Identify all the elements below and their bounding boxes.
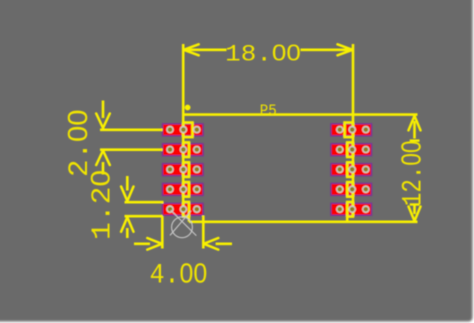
bump box R3: [347, 162, 353, 177]
bump box L5: [183, 202, 189, 217]
holes L1: [166, 126, 200, 134]
dim 12.00 top arrow (up): [413, 121, 416, 139]
silkscreen top edge / 12.00 top extension: [183, 113, 417, 116]
svg-text:P5: P5: [260, 102, 277, 120]
pad row L2: [163, 144, 204, 156]
bump box R4: [347, 182, 353, 197]
pin1 bump box L1: [183, 123, 192, 138]
svg-text:2.00: 2.00: [62, 110, 96, 178]
staircase right down-leg: [346, 216, 349, 222]
dim 1.20 lower arrow (up): [126, 228, 129, 238]
svg-text:4.00: 4.00: [150, 258, 208, 292]
dim 2.00 extension row2: [100, 148, 163, 151]
holes L4: [166, 186, 200, 194]
bump box L3: [183, 162, 189, 177]
staircase left down-leg: [188, 216, 191, 222]
holes R3: [336, 166, 370, 174]
pad row R4: [331, 183, 372, 195]
pad row L4: [163, 183, 204, 195]
dim 2.00 lower arrow (up): [102, 162, 105, 175]
pad row R3: [331, 164, 372, 176]
holes R2: [336, 146, 370, 154]
pad row R5: [331, 203, 372, 215]
pad row L3: [163, 164, 204, 176]
pad row L1: [163, 124, 204, 136]
dim 4.00 left arrow (right-pointing): [134, 243, 150, 246]
bump box L4: [183, 182, 189, 197]
dim 4.00 extension left vertical: [161, 216, 164, 248]
svg-text:18.00: 18.00: [225, 40, 301, 68]
pin1 reference dot: [185, 105, 191, 111]
dim 18.00 right arrowhead: [338, 44, 353, 50]
origin marker: [170, 210, 196, 237]
dim 4.00 extension right vertical: [202, 216, 205, 249]
holes R4: [336, 186, 370, 194]
holes R1: [336, 126, 370, 134]
bump box R2: [347, 142, 353, 157]
silkscreen right vertical outline: [352, 44, 355, 217]
holes L3: [166, 166, 200, 174]
dim 4.00 right arrow (left-pointing): [216, 243, 232, 246]
holes L2: [166, 146, 200, 154]
dim 18.00 line left segment: [183, 48, 226, 51]
bump box R5: [347, 202, 353, 217]
svg-text:12.00: 12.00: [396, 141, 430, 207]
bump box L2: [183, 142, 189, 157]
dim 12.00 bottom arrow (down): [413, 206, 416, 215]
pad row L5: [163, 203, 204, 215]
dim 1.20 extension top: [125, 201, 164, 204]
dim 18.00 left arrowhead: [184, 44, 199, 50]
svg-text:1.20: 1.20: [85, 170, 118, 240]
holes L5: [166, 205, 200, 213]
dim 1.20 extension bottom: [125, 215, 163, 218]
dim 1.20 upper arrow (down): [126, 176, 129, 191]
dim 2.00 upper arrow (down): [102, 101, 105, 119]
dim 18.00 line right segment: [301, 48, 354, 51]
pad row R2: [331, 144, 372, 156]
dim 2.00 extension row1: [100, 129, 163, 132]
pad row R1: [331, 124, 372, 136]
bump box R1: [345, 123, 353, 138]
silkscreen bottom edge / 12.00 bottom extension: [189, 221, 418, 224]
holes R5: [336, 205, 370, 213]
silkscreen left vertical outline: [182, 44, 185, 217]
